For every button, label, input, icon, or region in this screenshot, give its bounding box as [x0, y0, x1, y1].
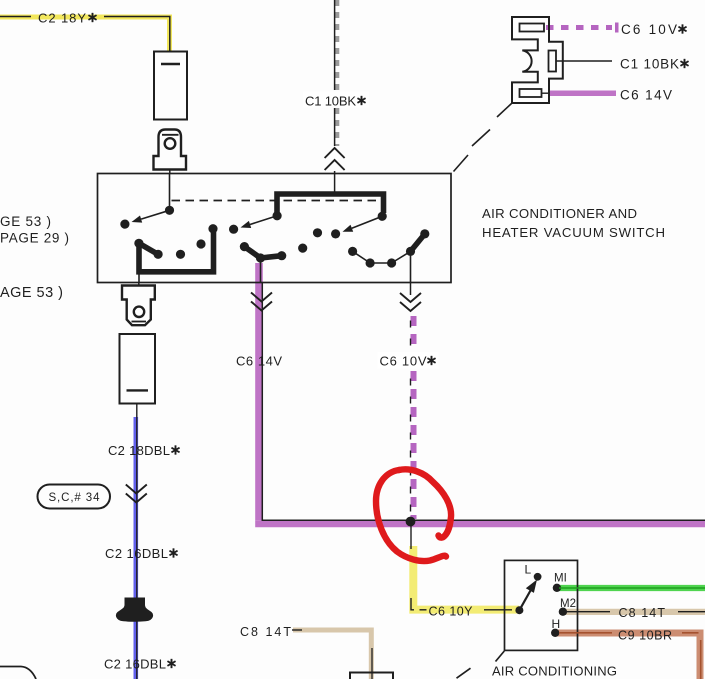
svg-text:C2 18Y: C2 18Y	[38, 11, 86, 26]
svg-text:C6 14V: C6 14V	[620, 88, 672, 103]
svg-text:C8 14T: C8 14T	[619, 606, 666, 620]
svg-text:AIR CONDITIONING: AIR CONDITIONING	[492, 664, 617, 679]
svg-text:C1 10BK: C1 10BK	[620, 57, 679, 72]
svg-text:C9 10BR: C9 10BR	[618, 629, 672, 643]
svg-text:C8 14T: C8 14T	[240, 625, 291, 639]
svg-text:C6 14V: C6 14V	[236, 354, 282, 369]
svg-text:AGE 53 ): AGE 53 )	[0, 285, 63, 301]
svg-text:C6 10Y: C6 10Y	[429, 605, 474, 619]
svg-text:L: L	[525, 563, 532, 577]
svg-text:C6 10V: C6 10V	[380, 354, 427, 369]
svg-text:C1 10BK: C1 10BK	[305, 94, 356, 109]
svg-text:C2 16DBL: C2 16DBL	[104, 657, 166, 672]
svg-text:H: H	[552, 617, 561, 631]
svg-text:GE 53 ): GE 53 )	[0, 214, 51, 229]
svg-text:HEATER VACUUM SWITCH: HEATER VACUUM SWITCH	[482, 225, 665, 240]
svg-text:S,C,# 34: S,C,# 34	[49, 492, 101, 504]
svg-text:C2 16DBL: C2 16DBL	[105, 546, 168, 561]
svg-text:M2: M2	[560, 598, 576, 610]
svg-text:MI: MI	[554, 573, 567, 585]
svg-text:PAGE 29 ): PAGE 29 )	[0, 231, 69, 246]
svg-text:C6 10V: C6 10V	[621, 22, 677, 37]
svg-text:AIR CONDITIONER AND: AIR CONDITIONER AND	[482, 206, 637, 221]
svg-text:C2 18DBL: C2 18DBL	[108, 443, 170, 458]
